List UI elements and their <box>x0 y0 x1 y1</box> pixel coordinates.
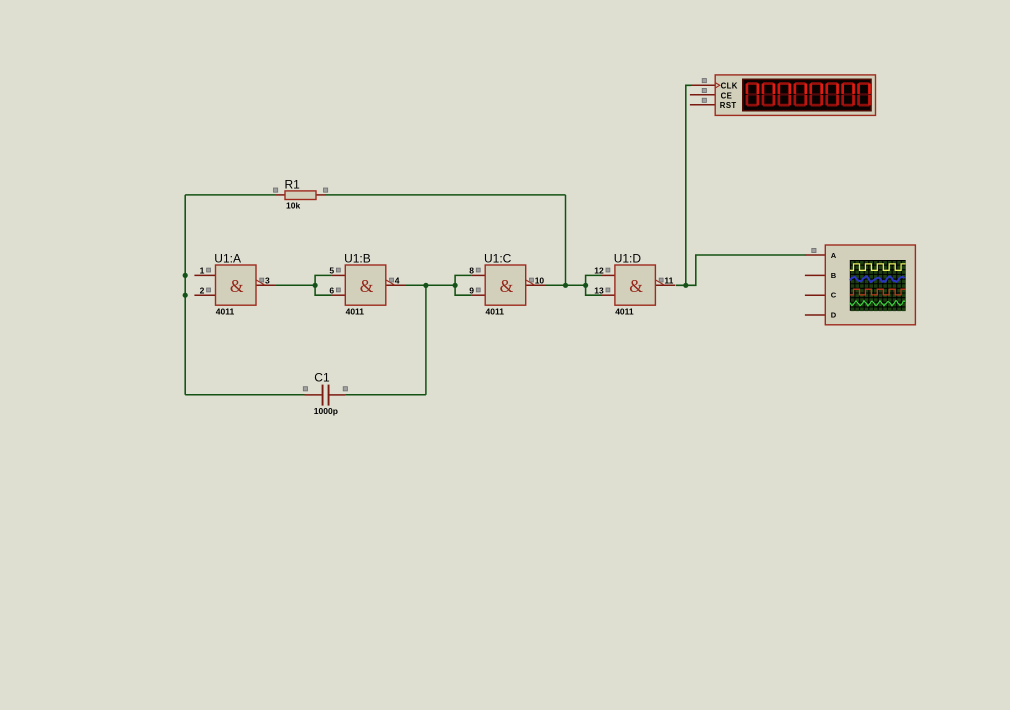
svg-text:10: 10 <box>535 276 545 286</box>
svg-text:CLK: CLK <box>721 81 738 90</box>
svg-text:9: 9 <box>469 285 474 295</box>
wire: U1:D output to oscilloscope channel A <box>676 255 805 285</box>
junction: U1:D input node <box>583 283 588 288</box>
svg-text:1000p: 1000p <box>314 406 338 416</box>
wire: U1:A output to U1:B input bracket <box>276 284 316 286</box>
wire: C1 riser up to U1:B output net <box>425 285 427 394</box>
svg-text:13: 13 <box>594 285 604 295</box>
svg-text:4011: 4011 <box>346 307 365 317</box>
wire: U1:C input bracket <box>455 275 472 295</box>
svg-text:U1:D: U1:D <box>614 251 642 265</box>
NAND gate U1:B (4011) <box>329 251 405 316</box>
svg-text:5: 5 <box>329 266 334 276</box>
resistor R1 10k <box>274 177 328 210</box>
svg-text:4011: 4011 <box>216 307 235 317</box>
wire: C1 right to riser corner <box>345 394 426 396</box>
oscilloscope screen with grid <box>850 260 906 311</box>
svg-text:D: D <box>831 311 837 320</box>
junction: feedback to pin 2 <box>183 293 188 298</box>
capacitor C1 1000p <box>303 370 347 416</box>
svg-text:2: 2 <box>200 285 205 295</box>
svg-text:&: & <box>360 276 374 296</box>
wire: U1:C output to U1:D input bracket <box>545 284 585 286</box>
wire: bottom net from feedback to C1 left <box>185 394 304 396</box>
NAND gate U1:D (4011) <box>594 251 675 316</box>
oscilloscope trace A (yellow square wave) <box>850 264 906 270</box>
svg-text:U1:B: U1:B <box>344 251 371 265</box>
svg-text:R1: R1 <box>285 177 301 191</box>
wire: top net from feedback to R1 left <box>185 194 276 196</box>
NAND gate U1:A (4011) <box>194 251 275 316</box>
wire: R1 riser down to U1:C output net <box>565 195 567 285</box>
oscilloscope instrument body <box>805 245 915 325</box>
svg-text:8: 8 <box>469 266 474 276</box>
oscilloscope trace D (green triangle wave) <box>850 301 905 306</box>
junction: R1 riser node <box>563 283 568 288</box>
svg-text:6: 6 <box>329 285 334 295</box>
wire: U1:D input bracket <box>586 275 602 295</box>
svg-text:&: & <box>230 276 244 296</box>
junction: C1 riser node <box>423 283 428 288</box>
counter 7-segment display (8 digits) <box>743 79 871 110</box>
NAND gate U1:C (4011) <box>469 251 545 316</box>
svg-text:4011: 4011 <box>486 307 505 317</box>
svg-text:B: B <box>831 271 837 280</box>
svg-text:11: 11 <box>664 276 673 286</box>
svg-text:4011: 4011 <box>615 307 634 317</box>
svg-text:4: 4 <box>395 276 400 286</box>
svg-text:U1:C: U1:C <box>484 251 512 265</box>
junction: U1:B input node <box>313 283 318 288</box>
junction: feedback to pin 1 <box>183 273 188 278</box>
svg-text:CE: CE <box>721 91 733 100</box>
svg-text:10k: 10k <box>286 201 300 211</box>
wire: U1:B input bracket <box>315 275 332 295</box>
svg-text:&: & <box>500 276 514 296</box>
svg-text:12: 12 <box>594 266 604 276</box>
digital counter instrument body <box>690 75 876 116</box>
svg-text:U1:A: U1:A <box>214 251 241 265</box>
wire: output node up to counter CLK <box>686 85 691 285</box>
wire: left feedback vertical <box>184 195 186 395</box>
svg-text:RST: RST <box>720 101 737 110</box>
svg-text:C1: C1 <box>314 370 330 384</box>
wire: R1 right to riser corner <box>325 194 565 196</box>
svg-text:3: 3 <box>265 276 270 286</box>
junction: U1:D output node <box>683 283 688 288</box>
oscilloscope trace B (blue noisy sine) <box>850 276 904 282</box>
junction: U1:C input node <box>453 283 458 288</box>
oscilloscope trace C (red square wave) <box>850 289 906 295</box>
wire: U1:B output to U1:C input bracket <box>405 284 455 286</box>
svg-text:A: A <box>831 251 837 260</box>
svg-text:C: C <box>831 291 837 300</box>
svg-text:&: & <box>629 276 643 296</box>
svg-text:1: 1 <box>200 266 205 276</box>
